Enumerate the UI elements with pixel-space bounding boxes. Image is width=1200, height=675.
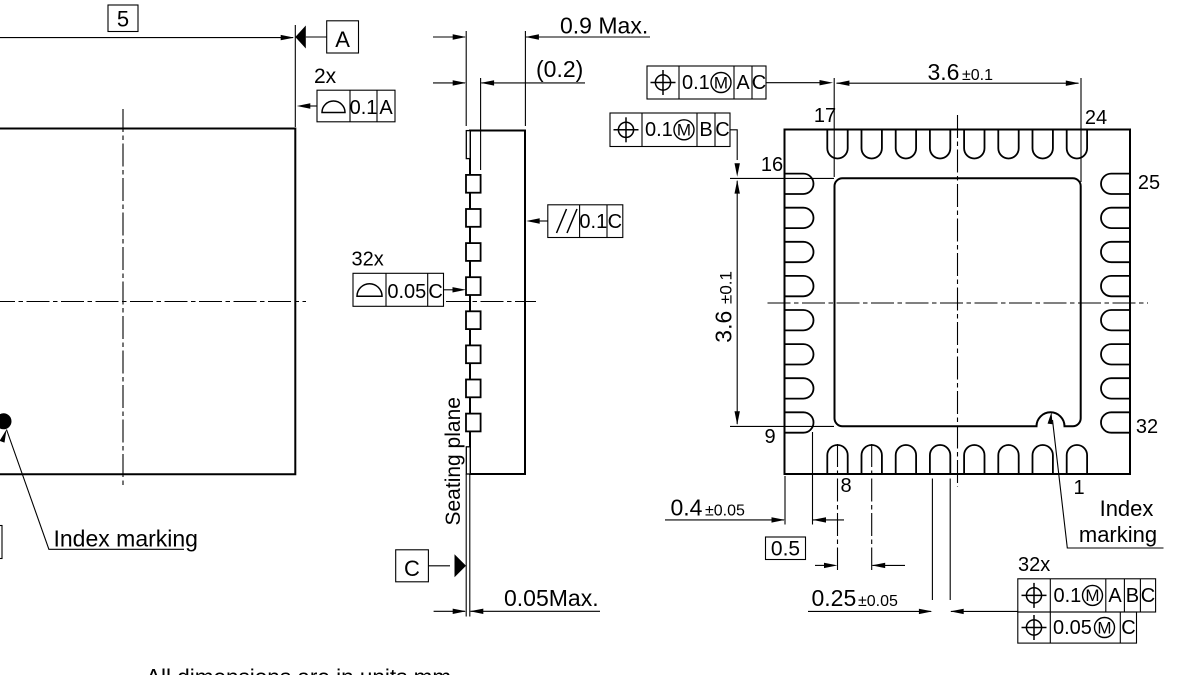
bottom view body outline	[785, 130, 1131, 475]
profile FCF 0.1 A	[317, 90, 395, 122]
svg-text:A: A	[335, 27, 350, 52]
svg-text:32x: 32x	[1018, 554, 1050, 576]
svg-text:0.4: 0.4	[671, 495, 703, 521]
leader to terminal	[444, 289, 456, 291]
terminal pads 8-1 (bottom row)	[827, 445, 847, 474]
svg-text:±0.1: ±0.1	[962, 67, 993, 84]
terminal pads 25-32 (right column)	[1101, 174, 1130, 194]
leader to body edge	[537, 220, 548, 222]
dimension 5 boxed label	[108, 5, 138, 32]
svg-text:A: A	[1108, 585, 1122, 607]
dim 0.05 Max	[434, 610, 465, 612]
svg-text:3.6: 3.6	[928, 59, 960, 85]
position FCF 0.05 M C (row2)	[1018, 612, 1137, 643]
body edge extension	[469, 474, 471, 617]
datum A triangle	[295, 26, 306, 49]
svg-text:0.1: 0.1	[1054, 585, 1082, 607]
svg-text:0.1: 0.1	[579, 211, 607, 233]
svg-text:B: B	[699, 119, 712, 141]
svg-text:16: 16	[761, 154, 783, 176]
side view terminals (8 bumps)	[466, 175, 481, 193]
svg-text:8: 8	[840, 475, 851, 497]
svg-text:Index marking: Index marking	[54, 526, 198, 552]
svg-text:0.05: 0.05	[387, 281, 426, 303]
svg-text:0.25: 0.25	[812, 585, 857, 611]
index notch leader	[1053, 420, 1164, 548]
svg-text:Index: Index	[1100, 496, 1154, 521]
dim (0.2)	[433, 82, 465, 84]
leader FCF2	[730, 130, 737, 160]
bottom view horizontal centerline	[768, 302, 1149, 304]
svg-text:0.05: 0.05	[1053, 617, 1092, 639]
leader FCF1	[766, 82, 820, 84]
parallelism FCF // 0.1 C	[548, 205, 623, 238]
svg-text:M: M	[1085, 586, 1099, 605]
position FCF 0.1 M A B C (row1)	[1018, 579, 1156, 612]
extension line lead tip	[480, 78, 482, 170]
index marking dot	[0, 414, 11, 429]
svg-text:±0.05: ±0.05	[705, 503, 745, 520]
svg-text:A: A	[736, 72, 750, 94]
dim 0.4	[784, 476, 786, 525]
profile FCF 0.05 C (side)	[353, 273, 444, 306]
datum C triangle	[428, 565, 450, 567]
seating plane line	[465, 474, 467, 617]
svg-text:25: 25	[1138, 172, 1160, 194]
svg-text:C: C	[715, 119, 729, 141]
bottom view vertical centerline	[957, 115, 959, 487]
svg-text:All dimensions are in units mm: All dimensions are in units mm	[146, 665, 451, 675]
svg-text:1: 1	[1073, 477, 1084, 499]
svg-text:(0.2): (0.2)	[536, 56, 583, 82]
terminal pads 16-9 (left column)	[785, 174, 814, 194]
svg-text:32x: 32x	[352, 249, 384, 271]
position FCF 0.1 M B C	[610, 113, 730, 147]
svg-text:0.1: 0.1	[350, 97, 378, 119]
svg-text:C: C	[1141, 585, 1155, 607]
svg-text:±0.1: ±0.1	[717, 271, 736, 304]
leader to edge	[310, 105, 317, 107]
datum B box fragment	[0, 526, 2, 559]
side view edge-on pad strip bottom	[466, 447, 470, 474]
exposed pad with index notch	[835, 178, 1081, 426]
svg-text:M: M	[677, 121, 691, 140]
extension line body right edge	[294, 25, 296, 127]
svg-text:Seating plane: Seating plane	[442, 397, 465, 525]
top view body outline	[0, 129, 295, 475]
top view vertical centerline	[122, 109, 124, 488]
svg-text:0.5: 0.5	[771, 538, 800, 561]
dim 3.6 vertical	[730, 177, 834, 179]
svg-text:C: C	[608, 211, 622, 233]
dim 3.6 horizontal	[833, 78, 835, 177]
position FCF 0.1 M A C	[647, 66, 766, 99]
svg-text:C: C	[404, 556, 420, 581]
svg-text:M: M	[714, 73, 728, 92]
svg-text:0.9 Max.: 0.9 Max.	[560, 13, 648, 39]
terminal pads 17-24 (top row)	[827, 130, 847, 159]
svg-text:A: A	[379, 97, 393, 119]
side view edge-on pad strip top	[466, 131, 470, 159]
dimension 5 line	[0, 37, 293, 39]
svg-text:0.05Max.: 0.05Max.	[504, 585, 599, 611]
dim 0.25	[931, 479, 933, 601]
svg-text:marking: marking	[1079, 522, 1157, 547]
svg-text:0.1: 0.1	[645, 119, 673, 141]
svg-text:24: 24	[1085, 107, 1107, 129]
svg-text:B: B	[1126, 585, 1139, 607]
svg-text:5: 5	[117, 7, 129, 32]
svg-text:C: C	[1121, 617, 1135, 639]
svg-text:±0.05: ±0.05	[858, 593, 898, 610]
svg-text:C: C	[428, 281, 442, 303]
dim 0.5 boxed	[766, 537, 806, 560]
svg-text:9: 9	[764, 426, 775, 448]
side view body	[470, 131, 525, 475]
datum C box	[396, 550, 429, 582]
svg-text:C: C	[752, 72, 766, 94]
top view horizontal centerline	[0, 301, 306, 303]
index marking leader	[0, 429, 9, 443]
side view horizontal centerline	[446, 301, 536, 303]
dim 0.9 Max	[433, 36, 465, 38]
extension lines 0.9 dim	[465, 31, 467, 126]
svg-text:32: 32	[1136, 416, 1158, 438]
svg-text:2x: 2x	[314, 65, 337, 88]
datum A box	[327, 21, 359, 53]
svg-text:3.6: 3.6	[711, 311, 737, 343]
svg-text:17: 17	[814, 105, 836, 127]
svg-text:0.1: 0.1	[682, 72, 710, 94]
svg-text:M: M	[1097, 618, 1111, 637]
